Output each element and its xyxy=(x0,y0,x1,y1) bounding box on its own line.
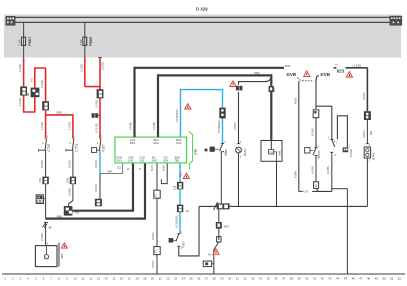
svg-text:1.5 RD: 1.5 RD xyxy=(95,100,99,108)
splice on ground rail xyxy=(214,202,230,210)
svg-text:C751: C751 xyxy=(75,144,79,152)
plug C280 xyxy=(343,145,354,157)
connector X2 xyxy=(42,101,49,110)
svg-text:14: 14 xyxy=(105,276,109,280)
svg-text:0.75 RD: 0.75 RD xyxy=(95,123,99,133)
svg-text:C750: C750 xyxy=(47,144,51,152)
svg-text:B246: B246 xyxy=(243,149,247,156)
wire red branch to C751 xyxy=(46,115,73,139)
svg-text:C2S0: C2S0 xyxy=(349,149,353,157)
terminal block right xyxy=(390,16,403,26)
svg-text:45S5: 45S5 xyxy=(293,97,297,104)
wire red stub from rail xyxy=(99,58,101,90)
svg-text:21: 21 xyxy=(159,276,163,280)
svg-text:16: 16 xyxy=(120,276,124,280)
svg-text:2.5 RD: 2.5 RD xyxy=(100,62,104,70)
svg-text:0.5: 0.5 xyxy=(29,78,33,82)
wire B246 down xyxy=(366,158,368,206)
svg-text:17: 17 xyxy=(128,276,132,280)
switch C280 xyxy=(328,137,337,157)
shield sleeve Z box xyxy=(36,195,46,204)
wire red elbow fuse2 xyxy=(85,87,100,90)
wire below X4 xyxy=(45,184,47,218)
sensor B246b xyxy=(236,141,247,159)
svg-text:47: 47 xyxy=(359,276,363,280)
svg-text:27: 27 xyxy=(205,276,209,280)
svg-text:X26: X26 xyxy=(174,185,177,190)
plug above B246b xyxy=(236,86,243,91)
DVB destination 1 xyxy=(287,72,313,81)
terminal block left (battery feed) xyxy=(6,16,16,26)
warning triangle 62S xyxy=(346,72,352,77)
svg-text:18: 18 xyxy=(135,276,139,280)
svg-text:1.5 RD: 1.5 RD xyxy=(40,80,44,88)
svg-text:0.5 BN: 0.5 BN xyxy=(40,160,44,168)
thick wire H2 to A89 xyxy=(158,75,271,140)
wire 45S5 vertical from DVB xyxy=(298,81,300,191)
svg-text:M1: M1 xyxy=(26,92,30,96)
plug near track xyxy=(203,261,214,267)
svg-text:F58/7: F58/7 xyxy=(28,37,32,46)
svg-text:4.0 BN: 4.0 BN xyxy=(310,128,314,136)
svg-text:1.5 RD: 1.5 RD xyxy=(18,98,22,106)
svg-text:0.5 BN: 0.5 BN xyxy=(40,233,44,241)
svg-text:7.5A: 7.5A xyxy=(79,39,83,45)
wire red fuse2 down xyxy=(84,57,86,86)
svg-text:F107: F107 xyxy=(101,144,105,151)
wire red fuse1 down xyxy=(23,58,25,86)
connector X7 xyxy=(364,111,371,120)
wire below C750 xyxy=(45,150,47,176)
connector X1 on red wire xyxy=(20,86,27,95)
svg-text:0.5 BU: 0.5 BU xyxy=(94,184,98,192)
svg-text:hr/35: hr/35 xyxy=(163,165,166,171)
svg-text:24: 24 xyxy=(182,276,186,280)
svg-text:0.5 BU: 0.5 BU xyxy=(94,160,98,168)
wire 62S run xyxy=(334,65,368,74)
cyan wire pin6 down xyxy=(179,164,181,234)
svg-text:1/30: 1/30 xyxy=(128,159,134,163)
svg-text:(9B): (9B) xyxy=(193,149,197,155)
svg-text:35: 35 xyxy=(267,276,271,280)
svg-text:44: 44 xyxy=(336,276,340,280)
bus bar 15 xyxy=(16,21,390,23)
svg-text:4036: 4036 xyxy=(57,216,63,219)
svg-text:F58/5: F58/5 xyxy=(89,37,93,46)
svg-text:0.5GN: 0.5GN xyxy=(233,122,237,130)
svg-text:13: 13 xyxy=(97,276,101,280)
svg-text:52: 52 xyxy=(398,276,402,280)
svg-text:42: 42 xyxy=(321,276,325,280)
svg-text:D X29: D X29 xyxy=(196,7,208,12)
wire below C280 xyxy=(331,152,333,191)
branch wire to plug xyxy=(239,76,272,143)
svg-text:29: 29 xyxy=(220,276,224,280)
svg-text:45S6: 45S6 xyxy=(285,65,291,68)
svg-text:20: 20 xyxy=(151,276,155,280)
svg-text:hr: hr xyxy=(127,168,130,170)
svg-text:25: 25 xyxy=(190,276,194,280)
svg-text:7B3: 7B3 xyxy=(175,159,180,163)
switch F107 xyxy=(92,136,106,153)
wire to switch E570 xyxy=(315,118,317,148)
svg-text:hr: hr xyxy=(139,168,142,170)
connector X3 xyxy=(97,89,104,98)
svg-text:3A/1: 3A/1 xyxy=(117,159,123,163)
splice chain below ground rail xyxy=(218,209,220,240)
connector X11 xyxy=(154,190,160,198)
svg-text:4.0BN: 4.0BN xyxy=(293,171,297,178)
ground point W8 xyxy=(42,222,52,229)
svg-text:4.0 BK: 4.0 BK xyxy=(152,122,156,130)
wire below E570 xyxy=(315,156,317,182)
svg-text:36: 36 xyxy=(274,276,278,280)
wire E570 drop xyxy=(315,79,317,109)
svg-text:31: 31 xyxy=(236,276,240,280)
svg-text:B246: B246 xyxy=(371,153,375,160)
wire red elbow to motor xyxy=(24,97,35,112)
svg-text:X7/6: X7/6 xyxy=(66,177,69,183)
wire C280 to track xyxy=(346,189,348,274)
svg-text:45S7: 45S7 xyxy=(224,225,230,228)
svg-text:30: 30 xyxy=(228,276,232,280)
svg-text:L1.5GN: L1.5GN xyxy=(353,65,362,68)
svg-text:22: 22 xyxy=(166,276,170,280)
svg-text:43: 43 xyxy=(328,276,332,280)
wire pin4 chain xyxy=(156,164,158,191)
wire pin1 stub xyxy=(122,164,124,174)
connector on A89 drop xyxy=(269,86,276,92)
wire red down to X2 xyxy=(45,68,47,101)
svg-text:5/24: 5/24 xyxy=(163,159,169,163)
svg-text:62S: 62S xyxy=(273,87,276,92)
svg-text:1.5 RD: 1.5 RD xyxy=(40,122,44,130)
connector X5 xyxy=(66,177,76,185)
connector X10 on cyan xyxy=(177,205,190,213)
svg-text:TO: TO xyxy=(335,65,338,67)
ground rail left elbow xyxy=(179,206,199,256)
bridge loop C280 xyxy=(337,116,347,148)
wire pin5 stub xyxy=(161,164,167,184)
wire N80 down xyxy=(220,152,222,204)
svg-text:0.5GN: 0.5GN xyxy=(151,260,155,268)
svg-text:3A/3: 3A/3 xyxy=(153,141,159,145)
component box A9/5 xyxy=(35,246,57,267)
svg-text:3/42: 3/42 xyxy=(152,159,158,163)
switch F557 xyxy=(169,231,186,250)
svg-text:51: 51 xyxy=(390,276,394,280)
DVB destination 2 xyxy=(316,72,331,81)
wire red to F107 xyxy=(99,98,101,138)
svg-text:40: 40 xyxy=(305,276,309,280)
switch C750 xyxy=(39,136,52,152)
svg-text:37: 37 xyxy=(282,276,286,280)
svg-text:1.5 RD: 1.5 RD xyxy=(18,64,22,72)
svg-text:12: 12 xyxy=(89,276,93,280)
svg-text:33: 33 xyxy=(251,276,255,280)
svg-text:F557: F557 xyxy=(181,241,185,248)
svg-text:45S1: 45S1 xyxy=(180,171,183,177)
fuse F58/5 xyxy=(79,22,93,57)
node marker xyxy=(205,149,208,152)
small box on wire xyxy=(217,237,221,242)
branch to C280 xyxy=(316,106,332,139)
svg-text:151: 151 xyxy=(117,167,122,170)
svg-text:48: 48 xyxy=(367,276,371,280)
wire red motor up elbow xyxy=(35,68,46,88)
svg-text:7.5A: 7.5A xyxy=(18,39,22,45)
svg-text:32: 32 xyxy=(244,276,248,280)
warning triangle DVB1 xyxy=(304,71,310,76)
svg-text:A9/5: A9/5 xyxy=(60,253,64,259)
svg-text:28: 28 xyxy=(213,276,217,280)
switch C751 xyxy=(66,136,79,152)
wire below junction xyxy=(99,174,101,199)
svg-text:X7/6: X7/6 xyxy=(39,177,42,183)
svg-text:0.5GN: 0.5GN xyxy=(362,130,366,138)
warning triangle track xyxy=(213,249,219,254)
svg-text:4.0GN: 4.0GN xyxy=(362,92,366,100)
wire cyan below F107 xyxy=(99,150,101,173)
fuse F58/7 xyxy=(18,22,32,58)
svg-text:DVB: DVB xyxy=(320,72,330,77)
connector X12 xyxy=(154,247,160,255)
svg-text:3A/3: 3A/3 xyxy=(176,141,182,145)
svg-text:1/31: 1/31 xyxy=(139,159,145,163)
svg-text:39: 39 xyxy=(298,276,302,280)
svg-text:41 B: 41 B xyxy=(303,191,308,194)
wire B246b down xyxy=(238,153,240,207)
svg-text:10: 10 xyxy=(74,276,78,280)
ground rail horizontal xyxy=(199,205,367,207)
svg-text:15: 15 xyxy=(112,276,116,280)
svg-text:0.5 BU/GN: 0.5 BU/GN xyxy=(175,109,179,122)
svg-text:1590: 1590 xyxy=(56,111,62,115)
svg-text:46: 46 xyxy=(352,276,356,280)
inline device on E570 wire xyxy=(313,110,319,118)
green brace xyxy=(189,131,193,169)
bus bar 30 xyxy=(16,16,390,18)
svg-text:41: 41 xyxy=(313,276,317,280)
svg-text:1.5 RD: 1.5 RD xyxy=(68,122,72,130)
splice S41 xyxy=(64,206,80,216)
svg-text:A89: A89 xyxy=(277,150,281,156)
svg-text:D5/4: D5/4 xyxy=(130,141,136,145)
wire A89 down xyxy=(276,161,278,206)
wire right drop to B246 xyxy=(366,68,368,111)
thick wire pin2 to S41 xyxy=(72,164,133,211)
connector X6 end xyxy=(95,199,102,207)
bracket line A9/5 xyxy=(58,243,60,267)
connector X8 on cyan xyxy=(219,108,225,119)
wire below C751 xyxy=(72,150,74,176)
warning triangle pin6 xyxy=(180,171,190,178)
thick wire pin3 to ground run xyxy=(46,164,145,219)
warning triangle cyan xyxy=(185,104,191,109)
svg-text:19: 19 xyxy=(143,276,147,280)
svg-text:23: 23 xyxy=(174,276,178,280)
control unit N10 green box xyxy=(115,137,187,163)
jog down to track xyxy=(214,242,219,274)
svg-text:690: 690 xyxy=(369,130,373,135)
svg-text:0.5 BU/GN: 0.5 BU/GN xyxy=(174,215,178,228)
wire red to switch C750 xyxy=(45,110,47,138)
connector X9 on cyan xyxy=(174,182,184,190)
wire below X5 into S41 xyxy=(69,184,73,206)
connector X4 xyxy=(39,177,49,185)
plug X30 hanging left xyxy=(92,113,100,118)
current track ruler xyxy=(2,273,405,275)
svg-text:4.0 BN: 4.0 BN xyxy=(310,166,314,174)
motor M1 xyxy=(26,88,39,98)
wire bottom link to E570 xyxy=(299,190,332,192)
thick wire H1 to DVB xyxy=(135,68,285,137)
sensor B246 xyxy=(364,144,375,163)
svg-text:62S: 62S xyxy=(337,68,345,73)
power rail band xyxy=(4,15,401,58)
svg-text:hr/15: hr/15 xyxy=(151,165,154,171)
svg-text:940: 940 xyxy=(108,170,113,174)
svg-text:38: 38 xyxy=(290,276,294,280)
svg-text:34: 34 xyxy=(259,276,263,280)
wire red below X1 xyxy=(23,96,25,112)
svg-text:49: 49 xyxy=(375,276,379,280)
svg-text:0.5GN: 0.5GN xyxy=(151,232,155,240)
switch N80 xyxy=(210,141,228,156)
wire to pump box xyxy=(45,222,47,245)
svg-text:4.0 BN: 4.0 BN xyxy=(326,166,330,174)
warning triangle H3 xyxy=(230,81,236,86)
svg-text:50: 50 xyxy=(383,276,387,280)
svg-text:11: 11 xyxy=(81,276,84,280)
svg-text:0.5 BN: 0.5 BN xyxy=(68,188,72,196)
svg-text:45: 45 xyxy=(344,276,348,280)
wire X7 to B246 xyxy=(366,120,368,144)
svg-text:26: 26 xyxy=(197,276,201,280)
svg-text:DVB: DVB xyxy=(287,72,297,77)
svg-text:0.5 BU/GN: 0.5 BU/GN xyxy=(217,120,221,133)
control box A89 xyxy=(261,141,282,162)
cyan wire pi xyxy=(181,90,223,144)
svg-text:E570: E570 xyxy=(317,151,321,158)
device G below E570 xyxy=(314,182,319,189)
svg-text:4.0 BK: 4.0 BK xyxy=(129,122,133,130)
warning triangle A9/5 xyxy=(61,243,67,248)
svg-text:45S6: 45S6 xyxy=(254,72,260,75)
switch E570 xyxy=(305,145,321,160)
wire 940 to control unit xyxy=(100,173,123,175)
svg-text:1.5 RD: 1.5 RD xyxy=(79,64,83,72)
svg-text:0.5 BN: 0.5 BN xyxy=(68,160,72,168)
svg-text:F088: F088 xyxy=(224,149,228,156)
